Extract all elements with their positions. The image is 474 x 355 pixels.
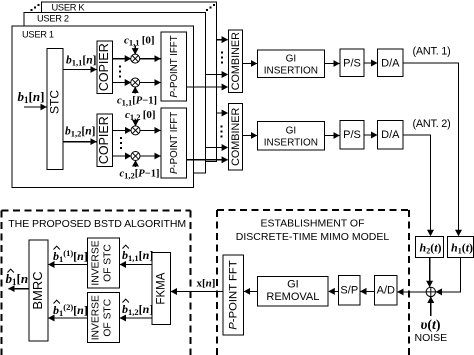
svg-text:c1,1 [0]: c1,1 [0] — [124, 35, 155, 48]
svg-text:GI: GI — [286, 125, 297, 136]
multiplier 2 — [131, 78, 140, 87]
svg-text:c1,2[P−1]: c1,2[P−1] — [120, 169, 160, 181]
inverse of STC 1 U5 — [88, 238, 120, 288]
svg-text:USER 1: USER 1 — [22, 30, 54, 40]
wire copier1 to mult1 — [113, 58, 131, 60]
svg-text:INSERTION: INSERTION — [264, 137, 318, 148]
svg-text:A/D: A/D — [377, 285, 395, 297]
wire h1 to adder — [436, 257, 460, 292]
copier 1 — [97, 41, 113, 94]
wire GI2 to PS2 — [324, 135, 339, 137]
wire INV1 to BMRC — [49, 264, 88, 266]
wire STC to copier1 — [63, 69, 96, 71]
svg-text:D/A: D/A — [381, 129, 400, 141]
wire combiner2 to GI2 — [243, 135, 257, 137]
wire copier2 to mult3 — [113, 129, 132, 131]
wire GI removal to FFT — [244, 290, 258, 292]
wire DA2 to h2 antenna path — [403, 135, 431, 236]
svg-text:υ(t): υ(t) — [421, 318, 441, 333]
wire FKMA to INV1 — [120, 264, 152, 266]
user 1 box — [12, 26, 194, 188]
dots right top of user K — [206, 4, 215, 11]
svg-text:S/P: S/P — [340, 285, 358, 297]
wire user2 edge to combiner1 — [206, 74, 228, 76]
svg-text:h1(t): h1(t) — [451, 241, 473, 256]
wire mult3 to IFFT2 — [140, 129, 160, 131]
IFFT1 U2 — [161, 32, 187, 101]
svg-text:P-POINT FFT: P-POINT FFT — [228, 260, 240, 330]
svg-text:b1[n]: b1[n] — [18, 89, 45, 105]
combiner 2 — [228, 104, 242, 171]
wire FFT to FKMA — [171, 291, 223, 293]
svg-text:GI: GI — [287, 279, 299, 291]
svg-text:D/A: D/A — [381, 57, 400, 69]
dots between copier2 outputs — [120, 137, 122, 149]
P/S 2 — [340, 121, 364, 150]
wire INV2 to BMRC — [49, 317, 88, 319]
svg-text:(ANT. 2): (ANT. 2) — [413, 118, 451, 130]
wire userK edge to combiner1 — [217, 39, 228, 41]
user K box — [42, 2, 217, 162]
svg-text:COPIER: COPIER — [97, 43, 111, 91]
svg-text:COMBINER: COMBINER — [230, 32, 242, 90]
svg-text:INSERTION: INSERTION — [264, 66, 318, 77]
GI removal U9 — [258, 277, 328, 307]
multiplier 3 — [131, 126, 140, 135]
GI insertion 1 — [258, 50, 325, 78]
IFFT2 U3 — [161, 108, 187, 178]
combiner 1 — [228, 30, 242, 93]
dashed box MIMO model — [217, 210, 409, 355]
wire IFFT2 out to combiner2 — [187, 159, 228, 161]
BMRC U4 — [29, 240, 48, 341]
D/A 2 — [378, 121, 403, 150]
svg-text:COPIER: COPIER — [97, 116, 111, 164]
svg-text:DISCRETE-TIME MIMO MODEL: DISCRETE-TIME MIMO MODEL — [236, 231, 390, 243]
wire userK edge to combiner2 — [217, 112, 228, 114]
wire mult4 to IFFT2 — [140, 155, 160, 157]
A/D U11 — [375, 275, 397, 305]
svg-text:INVERSE: INVERSE — [91, 295, 102, 340]
wire c11[P-1] into mult2 — [134, 87, 136, 94]
svg-text:P-POINT IFFT: P-POINT IFFT — [169, 35, 180, 97]
wire mult1 to IFFT1 — [140, 58, 161, 60]
wire mult2 to IFFT1 — [140, 82, 161, 84]
wire combiner1 to GI1 — [243, 63, 257, 65]
svg-text:USER K: USER K — [52, 3, 86, 13]
svg-text:THE PROPOSED BSTD ALGORITHM: THE PROPOSED BSTD ALGORITHM — [8, 218, 186, 230]
user 2 box — [24, 13, 206, 174]
wire IFFT1 out to combiner1 — [187, 86, 228, 88]
svg-text:(ANT. 1): (ANT. 1) — [413, 46, 451, 58]
svg-text:NOISE: NOISE — [415, 332, 448, 344]
wire STC to copier2 — [63, 141, 96, 143]
wire copier1 to mult2 — [113, 82, 131, 84]
svg-text:OF STC: OF STC — [103, 244, 114, 282]
svg-text:OF STC: OF STC — [103, 298, 114, 336]
wire input to STC — [24, 106, 46, 108]
dots left of user K — [31, 4, 40, 11]
wire user2 edge to combiner2 — [206, 147, 228, 149]
wire BMRC out — [9, 288, 30, 290]
wire c12[P-1] into mult4 — [135, 161, 137, 168]
svg-text:GI: GI — [286, 54, 297, 65]
h1(t) box — [447, 236, 473, 257]
svg-text:P/S: P/S — [343, 129, 361, 141]
svg-text:FKMA: FKMA — [156, 272, 168, 304]
wire AD to SP — [361, 290, 375, 292]
h2(t) box — [416, 236, 444, 257]
wire PS1 to DA1 — [364, 62, 377, 64]
wire noise to adder — [430, 297, 432, 316]
adder — [426, 287, 435, 296]
copier 2 — [97, 114, 113, 166]
wire adder to AD — [398, 291, 427, 293]
svg-text:h2(t): h2(t) — [420, 241, 442, 256]
wire DA1 to h1 antenna path — [403, 63, 459, 236]
svg-text:c1,2 [0]: c1,2 [0] — [125, 109, 156, 122]
svg-text:P-POINT IFFT: P-POINT IFFT — [169, 112, 180, 174]
wire SP to GI removal — [329, 290, 339, 292]
inverse of STC 2 U6 — [88, 293, 120, 343]
dots between copier1 outputs — [119, 66, 121, 78]
multiplier 1 — [131, 54, 140, 63]
svg-text:b1[n]: b1[n] — [6, 271, 33, 287]
wire PS2 to DA2 — [364, 134, 377, 136]
STC U1 — [47, 49, 63, 170]
wire copier2 to mult4 — [113, 155, 132, 157]
P-point FFT U8 — [223, 255, 243, 335]
svg-text:COMBINER: COMBINER — [230, 108, 242, 166]
svg-text:INVERSE: INVERSE — [91, 240, 102, 285]
svg-text:REMOVAL: REMOVAL — [266, 291, 319, 303]
wire FKMA to INV2 — [120, 317, 152, 319]
multiplier 4 — [131, 152, 140, 161]
svg-text:USER 2: USER 2 — [37, 14, 69, 24]
svg-text:ESTABLISHMENT OF: ESTABLISHMENT OF — [260, 218, 364, 230]
svg-text:c1,1[P−1]: c1,1[P−1] — [117, 96, 157, 108]
wire GI1 to PS1 — [324, 63, 339, 65]
svg-text:b1,1[n]: b1,1[n] — [122, 248, 153, 263]
P/S 1 — [340, 49, 364, 77]
dashed box BSTD algorithm — [2, 211, 191, 355]
svg-text:P/S: P/S — [343, 57, 361, 69]
wire c12[0] into mult3 — [135, 120, 137, 126]
D/A 1 — [378, 49, 403, 77]
svg-text:STC: STC — [48, 90, 62, 114]
wire h2 to adder — [429, 257, 431, 286]
svg-text:BMRC: BMRC — [30, 271, 45, 309]
FKMA U7 — [152, 253, 171, 325]
wire c11[0] into mult — [134, 46, 136, 55]
GI insertion 2 — [258, 122, 325, 151]
svg-text:x[n]: x[n] — [197, 278, 216, 290]
S/P U10 — [339, 275, 360, 305]
dots combiner2 inputs — [221, 126, 223, 138]
svg-text:b1,2[n]: b1,2[n] — [122, 302, 153, 317]
dots combiner1 inputs — [221, 52, 223, 64]
